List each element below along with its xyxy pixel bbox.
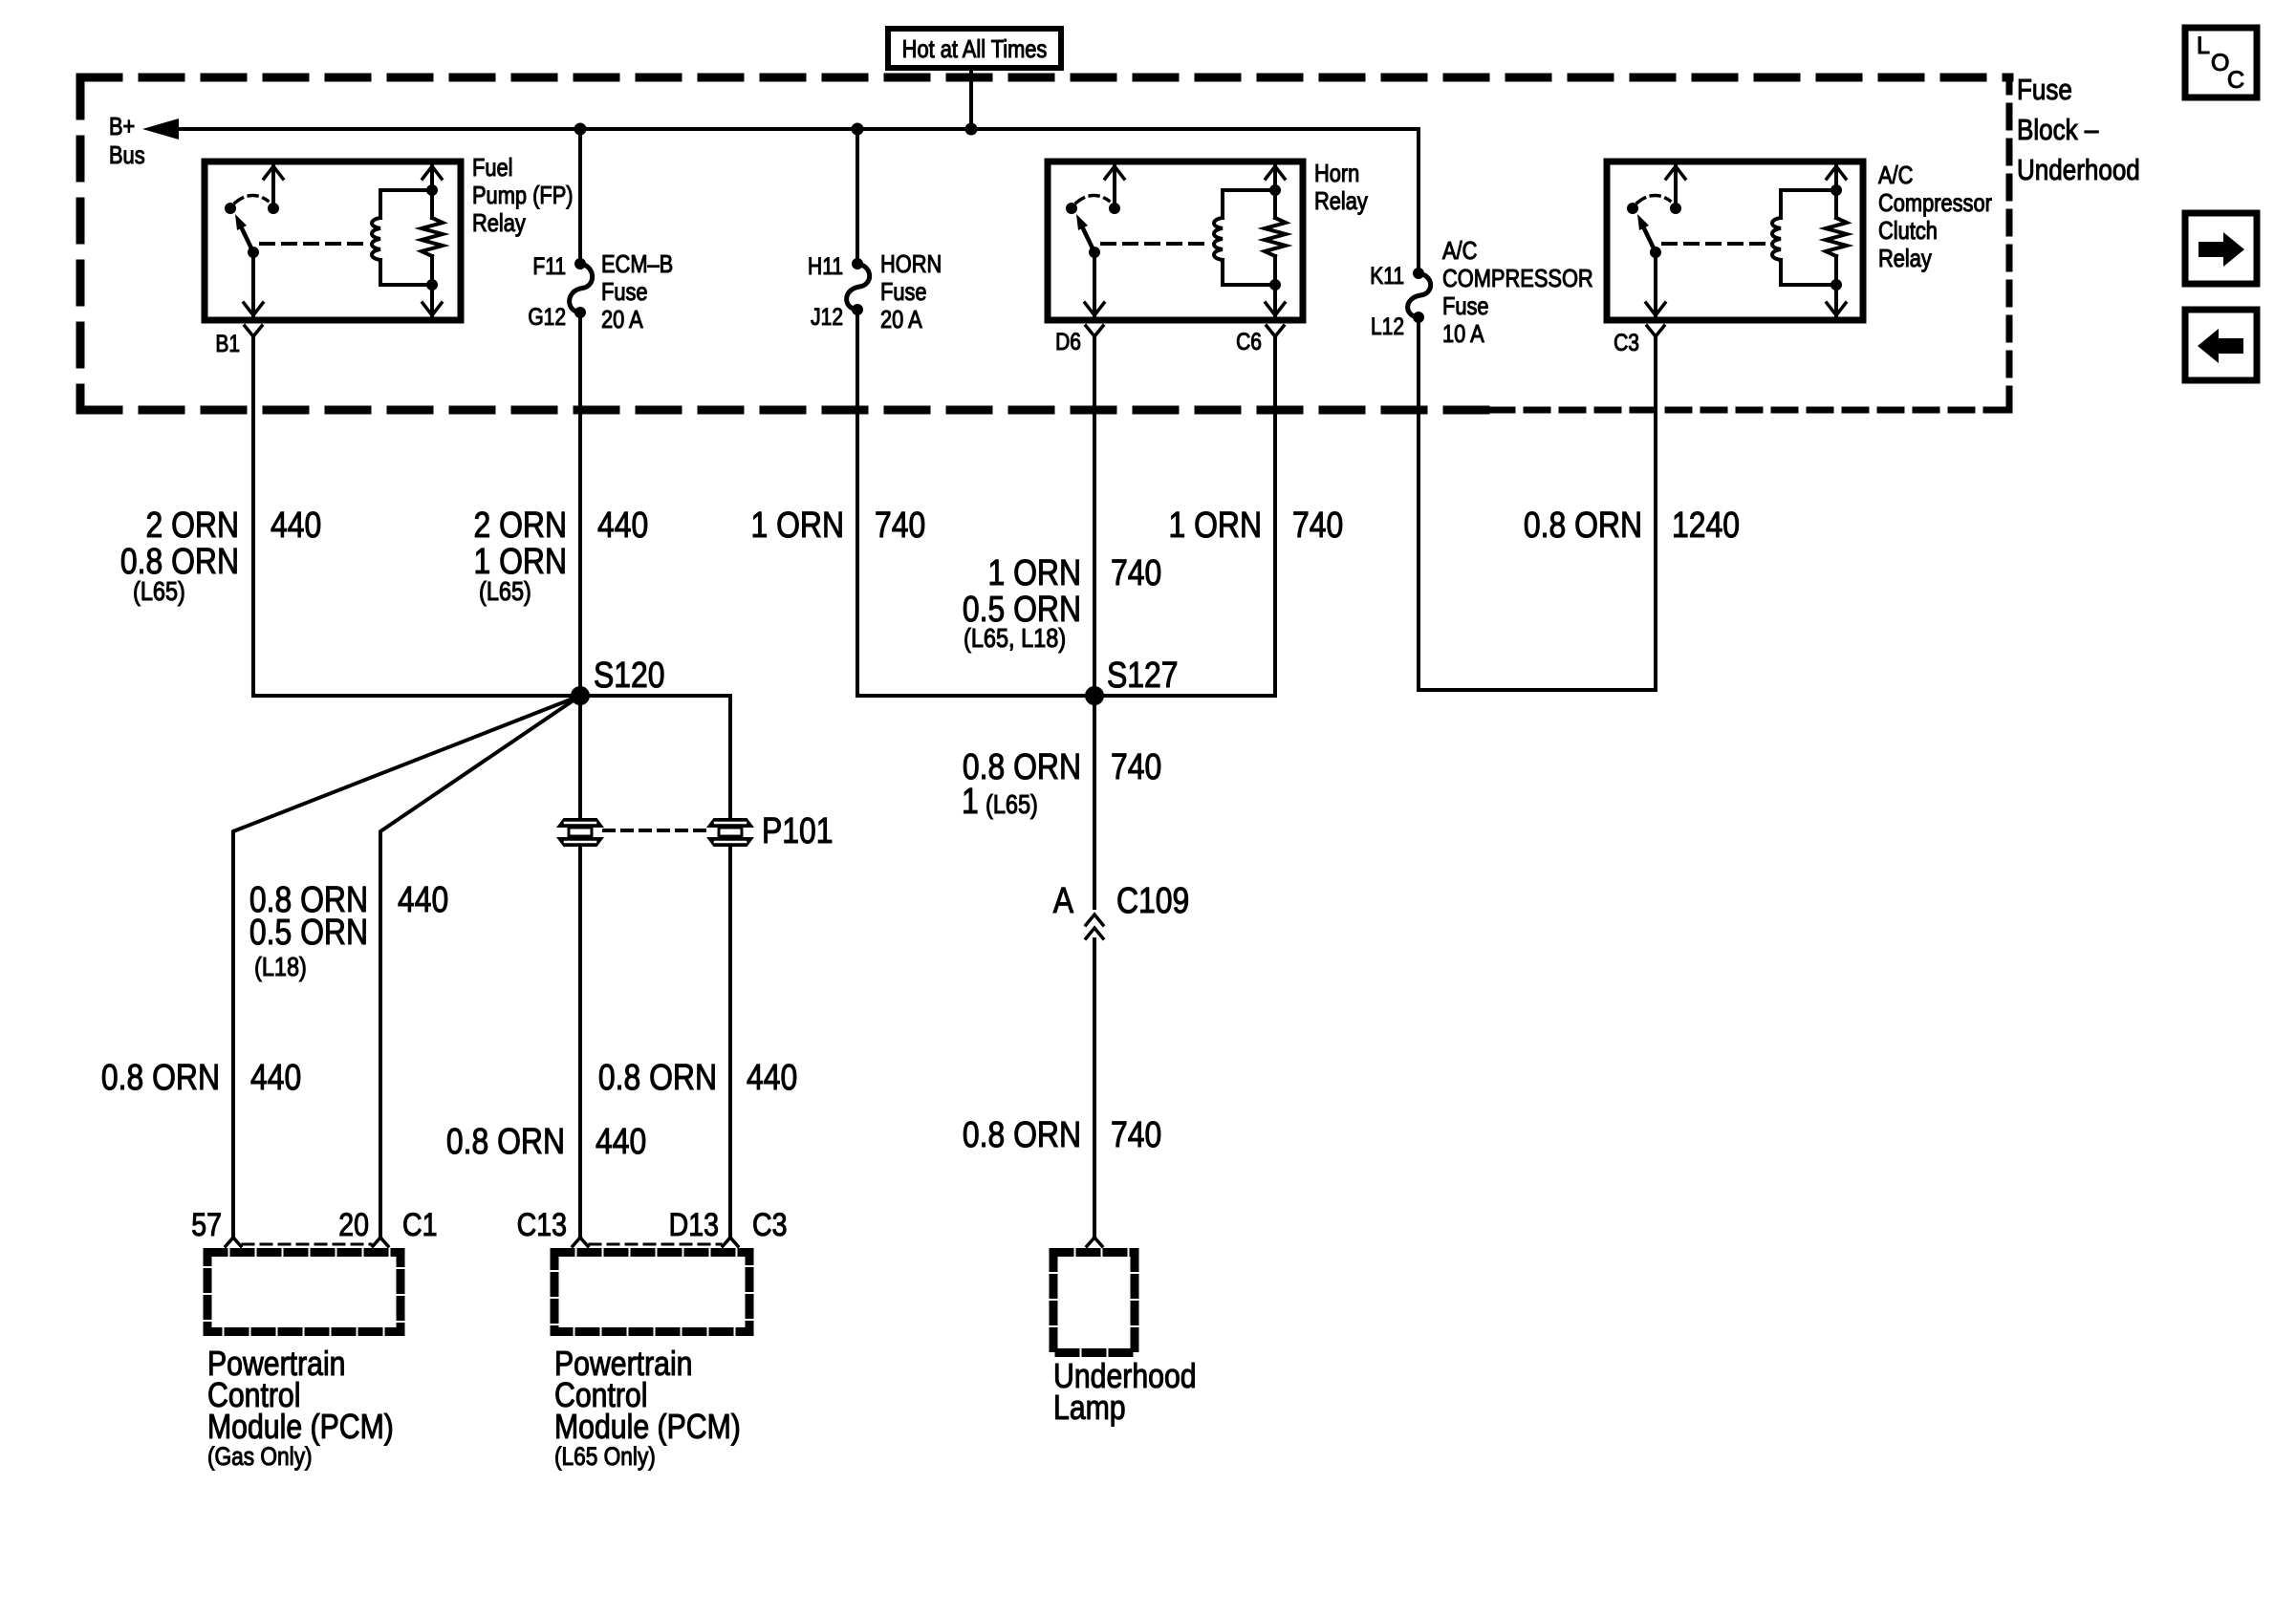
component: Powertrain Control Module (L65 Only): [554, 1253, 749, 1332]
svg-text:Relay: Relay: [472, 209, 526, 237]
svg-text:Module (PCM): Module (PCM): [554, 1409, 741, 1447]
icon: LOC reference box: [2185, 28, 2257, 97]
relay resistor: [1834, 165, 1838, 190]
svg-text:C3: C3: [752, 1207, 787, 1243]
svg-text:1: 1: [962, 781, 979, 821]
svg-text:740: 740: [1111, 1114, 1161, 1154]
svg-text:0.8 ORN: 0.8 ORN: [963, 1114, 1081, 1154]
svg-text:440: 440: [271, 505, 321, 545]
svg-text:Pump (FP): Pump (FP): [472, 182, 574, 209]
grommet P101 right: [708, 819, 752, 827]
wire: bus right corner down to K11: [1417, 129, 1420, 268]
svg-text:2 ORN: 2 ORN: [145, 505, 239, 545]
connector C109 pin A: [1086, 915, 1103, 925]
svg-text:J12: J12: [811, 303, 843, 330]
relay coil: [1221, 190, 1224, 218]
svg-text:(Gas Only): (Gas Only): [207, 1442, 313, 1471]
svg-text:C6: C6: [1236, 328, 1262, 355]
svg-text:F11: F11: [532, 252, 566, 279]
fuse block underhood boundary (dashed): [80, 74, 2009, 82]
component: Powertrain Control Module (Gas Only): [207, 1253, 401, 1332]
svg-text:1 ORN: 1 ORN: [987, 552, 1081, 592]
svg-text:1 ORN: 1 ORN: [1168, 505, 1262, 545]
svg-text:Fuse: Fuse: [2017, 74, 2072, 107]
svg-text:Block –: Block –: [2017, 114, 2098, 147]
svg-text:0.5 ORN: 0.5 ORN: [249, 912, 368, 952]
power label: Hot at All Times: [888, 29, 1061, 68]
svg-text:A/C: A/C: [1442, 237, 1477, 265]
fuse HORN: [852, 258, 863, 269]
fuse A/C COMPRESSOR: [1413, 268, 1424, 279]
B+ bus wire with arrow: [176, 127, 1419, 131]
wire: bus down to H11: [856, 129, 859, 258]
svg-text:A: A: [1053, 880, 1074, 920]
wire: P101 left down to C13: [578, 846, 582, 1238]
svg-text:ECM–B: ECM–B: [601, 250, 673, 278]
svg-text:Fuse: Fuse: [601, 278, 648, 306]
relay actuation dashed link: [261, 242, 366, 246]
svg-text:C13: C13: [517, 1207, 567, 1243]
svg-text:0.8 ORN: 0.8 ORN: [101, 1057, 220, 1097]
wire: C109 down to Underhood Lamp: [1093, 939, 1096, 1238]
svg-text:Horn: Horn: [1314, 160, 1359, 187]
svg-text:S127: S127: [1107, 655, 1179, 695]
svg-text:B+: B+: [109, 113, 135, 140]
svg-text:C3: C3: [1614, 329, 1639, 355]
svg-text:L12: L12: [1371, 312, 1404, 339]
pin 20 connector: [373, 1238, 380, 1246]
relay: Horn Relay: [1048, 161, 1303, 320]
wire: S120 right branch to P101: [580, 696, 730, 819]
connector pin C6: [1267, 326, 1275, 336]
connector pin B1: [245, 326, 253, 336]
wire: bus down to F11: [578, 129, 582, 258]
wire: L12 down and right to C3 branch: [1419, 323, 1656, 690]
svg-text:H11: H11: [808, 252, 843, 279]
svg-text:HORN: HORN: [880, 250, 942, 278]
svg-text:Clutch: Clutch: [1878, 217, 1938, 245]
node: bus to HORN fuse: [852, 123, 864, 136]
relay: Fuel Pump (FP) Relay: [205, 161, 461, 320]
svg-text:Module (PCM): Module (PCM): [207, 1409, 394, 1447]
wire: P101 right down to D13: [728, 846, 732, 1238]
svg-text:Fuse: Fuse: [880, 278, 927, 306]
svg-text:B1: B1: [215, 330, 240, 356]
lamp connector: [1087, 1238, 1094, 1246]
svg-text:740: 740: [1111, 746, 1161, 786]
svg-text:COMPRESSOR: COMPRESSOR: [1442, 265, 1593, 292]
svg-text:440: 440: [596, 1121, 646, 1161]
svg-text:20 A: 20 A: [601, 306, 643, 334]
relay coil: [1779, 190, 1783, 218]
svg-text:(L65): (L65): [133, 577, 185, 606]
svg-text:C109: C109: [1116, 880, 1189, 920]
svg-text:Bus: Bus: [109, 141, 145, 169]
dashed connector row C3: [590, 1243, 721, 1246]
pin C13 connector: [573, 1238, 580, 1246]
svg-text:Relay: Relay: [1878, 245, 1932, 272]
wire: C6 down to S127 row: [1100, 336, 1275, 696]
svg-text:1240: 1240: [1672, 505, 1740, 545]
relay resistor: [430, 165, 434, 190]
wire: S127 down to C109: [1093, 696, 1096, 908]
relay actuation dashed link: [1663, 242, 1766, 246]
svg-text:C: C: [2227, 67, 2244, 94]
grommet P101 left: [558, 819, 602, 827]
node: bus to ECM-B fuse: [574, 123, 587, 136]
fuse ECM-B: [574, 258, 586, 269]
svg-text:2 ORN: 2 ORN: [473, 505, 567, 545]
svg-text:740: 740: [1111, 552, 1161, 592]
wire: S120 diagonal to pin 57 branch: [233, 696, 580, 1238]
svg-text:20 A: 20 A: [880, 306, 922, 334]
icon: arrow left box: [2185, 310, 2257, 380]
svg-text:Fuse: Fuse: [1442, 292, 1489, 320]
wire: S120 diagonal to pin 20 branch: [380, 696, 580, 1238]
svg-text:K11: K11: [1370, 262, 1404, 289]
relay resistor: [1273, 165, 1277, 190]
svg-text:20: 20: [338, 1207, 369, 1243]
svg-text:L: L: [2197, 32, 2210, 59]
svg-text:(L65 Only): (L65 Only): [554, 1442, 656, 1471]
svg-text:S120: S120: [594, 655, 665, 695]
wire: B1 down to S120 row: [253, 336, 574, 696]
svg-text:(L65): (L65): [986, 790, 1038, 819]
pin D13 connector: [723, 1238, 730, 1246]
svg-text:0.8 ORN: 0.8 ORN: [963, 746, 1081, 786]
svg-text:0.8 ORN: 0.8 ORN: [1524, 505, 1642, 545]
relay switch: [1674, 165, 1678, 208]
svg-text:10 A: 10 A: [1442, 320, 1484, 348]
splice S120: [571, 686, 590, 705]
svg-text:0.8 ORN: 0.8 ORN: [598, 1057, 717, 1097]
relay switch: [271, 165, 275, 208]
wire: G12 down to S120: [578, 318, 582, 696]
svg-text:Underhood: Underhood: [2017, 154, 2140, 187]
svg-text:C1: C1: [402, 1207, 437, 1243]
svg-text:440: 440: [398, 879, 448, 919]
node: bus to Hot feed: [965, 123, 978, 136]
svg-text:Hot at All Times: Hot at All Times: [902, 35, 1048, 63]
svg-text:P101: P101: [762, 810, 834, 851]
splice S127: [857, 694, 1275, 698]
svg-text:A/C: A/C: [1878, 161, 1913, 189]
relay coil: [379, 190, 382, 218]
svg-text:Relay: Relay: [1314, 187, 1368, 215]
svg-text:G12: G12: [528, 303, 566, 330]
wire: D6 down to S127: [1093, 336, 1096, 696]
svg-text:(L65, L18): (L65, L18): [964, 624, 1066, 653]
dashed connector row C1: [243, 1243, 371, 1246]
wire: S120 down through P101: [578, 696, 582, 819]
svg-text:0.8 ORN: 0.8 ORN: [120, 541, 239, 581]
svg-text:D6: D6: [1055, 328, 1081, 355]
wire: J12 down to S127 row: [856, 315, 859, 696]
svg-text:D13: D13: [669, 1207, 719, 1243]
icon: arrow right box: [2185, 213, 2257, 284]
svg-text:Fuel: Fuel: [472, 154, 512, 182]
wire from Hot at All Times to B+ bus: [969, 71, 973, 129]
relay switch: [1113, 165, 1116, 208]
connector pin D6: [1086, 326, 1094, 336]
svg-text:440: 440: [747, 1057, 797, 1097]
svg-text:1 ORN: 1 ORN: [473, 541, 567, 581]
svg-text:57: 57: [191, 1207, 222, 1243]
relay actuation dashed link: [1102, 242, 1208, 246]
svg-text:(L18): (L18): [254, 953, 307, 981]
svg-text:440: 440: [250, 1057, 301, 1097]
pin 57 connector: [226, 1238, 233, 1246]
svg-text:440: 440: [597, 505, 648, 545]
svg-text:740: 740: [1292, 505, 1343, 545]
dashed link P101: [604, 829, 705, 832]
component: Underhood Lamp: [1053, 1253, 1135, 1353]
connector pin C3: [1647, 326, 1656, 336]
svg-text:(L65): (L65): [479, 577, 531, 606]
svg-text:Lamp: Lamp: [1053, 1389, 1126, 1428]
svg-text:740: 740: [875, 505, 925, 545]
relay: A/C Compressor Clutch Relay: [1607, 161, 1863, 320]
svg-text:1 ORN: 1 ORN: [750, 505, 844, 545]
svg-text:0.8 ORN: 0.8 ORN: [446, 1121, 565, 1161]
svg-text:Compressor: Compressor: [1878, 189, 1992, 217]
